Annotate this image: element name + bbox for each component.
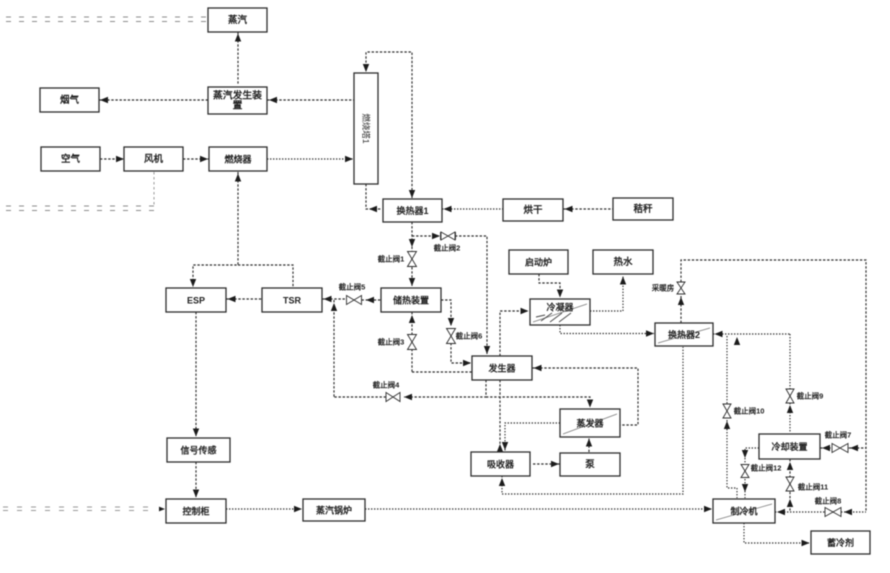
arrow right into burner — [200, 156, 208, 162]
box drying — [503, 199, 563, 221]
wire ESP bottom to sensor box — [195, 312, 197, 436]
stop valve 1 — [408, 252, 417, 267]
system boundary line mid-left — [6, 206, 156, 211]
box evaporator — [560, 409, 620, 437]
arrow up toward heating room — [678, 297, 684, 305]
box absorber — [471, 452, 530, 476]
stop valve 6 — [447, 329, 456, 344]
svg-text:换热器2: 换热器2 — [668, 329, 700, 340]
arrow up into heat-storage outlet line — [331, 303, 337, 311]
arrow up below stop valve 11 — [787, 499, 793, 507]
svg-text:采暖房: 采暖房 — [651, 283, 675, 293]
wire branch to TSR top — [238, 265, 293, 288]
arrow up into heat storage bottom — [409, 315, 415, 323]
box cold storage — [811, 531, 870, 554]
arrow right into pump — [551, 461, 559, 467]
system boundary line top-left — [6, 17, 206, 22]
svg-text:ESP: ESP — [187, 296, 205, 306]
arrow left into stop valve 7 — [850, 445, 858, 451]
svg-text:蒸发器: 蒸发器 — [576, 418, 604, 429]
box cooling device — [759, 434, 820, 459]
box TSR — [262, 288, 322, 312]
arrow right into condenser — [521, 308, 529, 314]
wire steam generator to flue-gas box — [99, 99, 208, 101]
arrow left into hx2 right — [715, 331, 723, 337]
arrow up toward generator — [497, 444, 503, 452]
svg-text:泵: 泵 — [584, 460, 595, 471]
wire absorber bottom loop to hx2 bottom — [502, 347, 683, 494]
stop valve 2 end bars — [441, 232, 456, 240]
wire generator top to condenser — [500, 311, 528, 356]
wire pump to evaporator — [588, 439, 590, 453]
wire heat-storage branch to TSR — [322, 298, 347, 300]
svg-text:吸收器: 吸收器 — [487, 459, 515, 470]
arrow left into steam generator — [269, 97, 277, 103]
arrow down above stop valve 1 — [409, 239, 415, 247]
svg-text:截止阀9: 截止阀9 — [797, 391, 824, 401]
stop valve 8 — [825, 508, 841, 517]
arrow up into burner bottom — [235, 174, 241, 182]
arrow right into stop valve 2 — [432, 233, 440, 239]
svg-text:截止阀8: 截止阀8 — [815, 496, 842, 506]
arrow down into chiller top — [742, 484, 748, 492]
arrow down into evaporator top — [587, 400, 593, 408]
stop valve 3 — [408, 335, 417, 350]
svg-text:蓄冷剂: 蓄冷剂 — [827, 537, 854, 548]
wire chiller right to far riser via stop valve 8 — [775, 511, 866, 513]
box hot water — [593, 250, 653, 274]
svg-text:控制柜: 控制柜 — [182, 506, 209, 517]
arrow left into dryer — [565, 206, 573, 212]
arrow down into absorber top — [502, 442, 508, 450]
svg-text:发生器: 发生器 — [487, 363, 516, 374]
svg-text:截止阀10: 截止阀10 — [734, 406, 765, 416]
arrow down into control cabinet — [193, 490, 199, 498]
wire condenser bottom to hx2 — [560, 325, 654, 334]
wire cooling unit bottom to chiller line — [789, 459, 791, 512]
box straw — [613, 198, 673, 220]
arrow left into generator right — [534, 365, 542, 371]
arrow left into stop valve 8 — [844, 509, 852, 515]
svg-text:风机: 风机 — [144, 153, 164, 165]
box pump — [560, 453, 620, 476]
box fan — [124, 147, 183, 171]
svg-text:烘干: 烘干 — [523, 204, 543, 216]
svg-text:空气: 空气 — [61, 153, 81, 165]
arrow right into tower — [345, 156, 353, 162]
stop valve 7 — [832, 444, 848, 453]
wire hx2 right to riser — [713, 333, 790, 335]
stop valve 9 — [786, 389, 794, 403]
wire hx2 top to heating room valve — [680, 296, 682, 323]
box condenser — [530, 299, 590, 325]
arrow right into generator — [463, 360, 471, 366]
svg-text:烟气: 烟气 — [60, 94, 80, 106]
arrow left toward tower from hx1 — [369, 206, 377, 212]
arrow down into sensor box — [193, 429, 199, 437]
wire burner bottom to ESP top — [193, 172, 238, 287]
svg-text:换热器1: 换热器1 — [396, 205, 428, 216]
box heat storage device — [381, 288, 441, 312]
svg-text:燃烧器: 燃烧器 — [224, 154, 252, 165]
arrow into control cabinet from boundary — [159, 507, 165, 512]
arrow up into cooling unit bottom — [787, 462, 793, 470]
arrow left into TSR — [324, 296, 332, 302]
box steam generation device — [208, 87, 267, 114]
wire heating loop to far right riser — [681, 260, 866, 512]
wire hx1 top loop to tower top — [366, 52, 412, 198]
decoration condenser hatch — [536, 313, 571, 322]
arrow left into ESP — [228, 296, 236, 302]
stop valve 5 — [347, 296, 362, 305]
arrow up into absorber bottom — [499, 478, 505, 486]
arrow left into flue-gas box — [100, 97, 108, 103]
arrow down into condenser top — [557, 290, 563, 298]
wire tower bottom to hx1 — [366, 184, 382, 209]
stop valve 2 — [441, 232, 455, 240]
wire stop valve 4 to riser — [334, 396, 386, 398]
svg-text:燃烧塔1: 燃烧塔1 — [361, 113, 371, 144]
wire stop valve 6 into generator left — [451, 343, 471, 363]
svg-text:制冷机: 制冷机 — [730, 506, 757, 517]
box combustion tower — [354, 73, 378, 184]
svg-text:置: 置 — [233, 100, 243, 112]
wire steam boiler to chiller — [365, 508, 711, 510]
box heat exchanger 2 — [655, 323, 713, 346]
arrow down into generator top — [484, 346, 490, 354]
svg-text:信号传感: 信号传感 — [180, 445, 216, 456]
arrow up into evaporator bottom — [586, 439, 592, 447]
wire evaporator left to absorber top — [505, 423, 560, 451]
wire dryer to hx1 — [442, 208, 503, 210]
svg-text:截止阀11: 截止阀11 — [798, 482, 828, 492]
wire sensor box to control cabinet — [195, 462, 197, 497]
svg-text:截止阀2: 截止阀2 — [434, 243, 461, 253]
wire generator bottom line to evaporator top — [486, 397, 590, 407]
box ESP — [166, 288, 226, 312]
svg-text:热水: 热水 — [613, 256, 633, 268]
svg-text:冷却装置: 冷却装置 — [771, 441, 807, 452]
arrow down above stop valve 12 — [742, 450, 748, 458]
stop valve 10 — [723, 404, 731, 418]
wire fan to burner — [183, 158, 209, 160]
arrow down into heat storage top — [409, 278, 415, 286]
wire riser to bottom return line — [333, 300, 335, 397]
arrow left into stop valve 4 — [404, 394, 412, 400]
stop valve 4 — [386, 393, 400, 402]
wire heat storage bottom through stop valve 3 — [411, 312, 413, 372]
wire heat storage right to stop valve 6 — [441, 300, 451, 326]
arrow right into hx2 left — [646, 330, 654, 336]
wire steam generator to steam box — [237, 32, 239, 85]
wire stop valve 3 line into generator left — [412, 371, 472, 373]
arrow down into stop valve 6 — [448, 318, 454, 326]
heating room valve — [677, 282, 685, 294]
stop valve 12 — [741, 465, 749, 478]
wire generator bottom to absorber top — [499, 380, 501, 451]
arrow left toward stop valve 5 — [366, 297, 374, 303]
svg-text:秸秆: 秸秆 — [633, 203, 653, 215]
arrow right into cold storage — [802, 540, 810, 546]
arrow up into stop valve 10 — [724, 421, 730, 429]
svg-text:储热装置: 储热装置 — [393, 295, 429, 306]
box generator — [472, 356, 532, 380]
svg-text:截止阀1: 截止阀1 — [378, 254, 405, 264]
box steam boiler — [303, 499, 365, 521]
wire absorber to pump — [533, 463, 560, 465]
stop valve 11 — [786, 477, 794, 491]
arrow up into steam box — [235, 34, 241, 42]
wire chiller to hx2 line riser — [727, 336, 737, 498]
wire straw to dryer — [563, 208, 613, 210]
svg-text:截止阀5: 截止阀5 — [339, 282, 366, 292]
wire cooling unit right to far riser via stop valve 7 — [820, 447, 866, 449]
wire tower to steam generator — [267, 99, 354, 101]
svg-text:冷凝器: 冷凝器 — [546, 302, 574, 313]
wire generator bottom to stop valve 4 line — [404, 380, 486, 397]
svg-text:蒸汽: 蒸汽 — [228, 14, 248, 26]
wire evaporator to generator right — [532, 368, 638, 425]
box startup furnace — [509, 250, 568, 274]
arrow up into stop valve 9 — [787, 405, 793, 413]
box burner — [209, 147, 267, 171]
svg-text:截止阀3: 截止阀3 — [378, 337, 405, 347]
wire startup furnace to condenser top — [539, 274, 560, 297]
wire stop valve 2 to generator top — [455, 236, 487, 354]
wire TSR to ESP — [226, 298, 262, 300]
box heat exchanger 1 — [383, 199, 442, 222]
wire burner to tower — [267, 158, 354, 160]
box signal sensor — [167, 438, 230, 462]
box flue gas — [40, 88, 99, 112]
box chiller — [713, 499, 775, 523]
box steam — [208, 8, 267, 32]
wire stop valve 5 to heat storage — [362, 299, 382, 301]
arrow left into chiller right — [777, 509, 785, 515]
system boundary line bottom-left — [3, 507, 156, 511]
svg-text:截止阀4: 截止阀4 — [373, 380, 400, 390]
box air — [41, 147, 100, 171]
arrow left into cooling unit — [822, 445, 830, 451]
svg-text:截止阀7: 截止阀7 — [825, 430, 852, 440]
svg-text:截止阀12: 截止阀12 — [751, 463, 782, 473]
box control cabinet — [166, 499, 226, 523]
arrow right into steam boiler — [294, 506, 302, 512]
arrow down into ESP top — [190, 279, 196, 287]
wire hx1 bottom to heat storage — [411, 222, 413, 286]
svg-text:启动炉: 启动炉 — [525, 257, 552, 268]
wire air to fan — [100, 158, 125, 160]
arrow right into chiller left — [704, 506, 712, 512]
arrow left into hx1 — [444, 206, 452, 212]
wire condenser to hot water box — [590, 276, 623, 311]
wire riser through stop valve 9 to cooling unit — [789, 334, 791, 433]
svg-text:TSR: TSR — [283, 296, 302, 306]
svg-text:截止阀6: 截止阀6 — [456, 331, 483, 341]
arrow up into hot water box — [620, 277, 626, 285]
wire branch to stop valve 2 — [412, 235, 440, 237]
arrow down into hx1 top — [409, 190, 415, 198]
wire control cabinet to steam boiler — [226, 508, 301, 510]
svg-text:蒸汽锅炉: 蒸汽锅炉 — [316, 505, 352, 516]
arrow down into tower top — [363, 64, 369, 72]
arrow right into fan — [116, 156, 124, 162]
wire cooling unit left to chiller top via stop valve 12 — [745, 448, 759, 498]
wire fan drain to boundary — [153, 172, 155, 206]
wire chiller bottom to cold storage — [744, 523, 809, 543]
arrow up into hx2 outlet line — [734, 337, 740, 345]
